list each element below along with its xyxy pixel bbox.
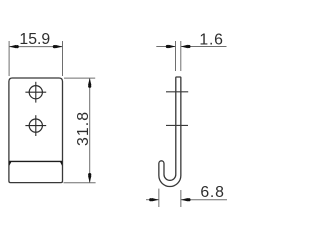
- dim 15.9 left arrow: [9, 45, 19, 48]
- dim 31.8 top arrow: [88, 78, 91, 88]
- hole H1 circle: [29, 86, 42, 99]
- dim 6.8 right extension line: [180, 190, 182, 207]
- hole H2 crosshair horizontal: [25, 125, 46, 127]
- svg-text:15.9: 15.9: [19, 31, 50, 48]
- dim 15.9 dimension line: [9, 46, 62, 48]
- front view plate outline: [9, 78, 63, 183]
- dim 31.8 bottom arrow: [88, 173, 91, 183]
- hole H1 centerline (side view): [166, 91, 188, 93]
- dim 31.8 bottom extension line: [64, 182, 96, 184]
- dim 6.8 dimension line left segment: [146, 199, 159, 201]
- hole H1 crosshair horizontal: [25, 91, 46, 93]
- dim 1.6 dimension line left segment: [156, 46, 175, 48]
- hole H1 crosshair vertical: [35, 82, 37, 103]
- dim 1.6 right arrow (points left at line): [181, 45, 191, 48]
- dim 6.8 left arrow (points right at line): [149, 198, 159, 201]
- dim 15.9 right arrow: [53, 45, 63, 48]
- dim 15.9 left extension line: [8, 41, 10, 76]
- hole H2 centerline (side view): [166, 124, 188, 126]
- side view hook profile: [159, 77, 181, 187]
- bend line: [9, 160, 62, 162]
- dim 31.8 top extension line: [64, 77, 95, 79]
- svg-text:6.8: 6.8: [200, 184, 224, 201]
- dim 31.8 dimension line: [89, 78, 91, 183]
- dim 15.9 right extension line: [62, 41, 64, 76]
- bend line left dart: [9, 161, 11, 166]
- dim 6.8 right arrow (points left at line): [181, 198, 191, 201]
- dim 1.6 left arrow (points right at line): [166, 45, 176, 48]
- dim 1.6 right extension line: [180, 41, 182, 71]
- svg-text:1.6: 1.6: [199, 31, 223, 48]
- dim 6.8 left extension line: [158, 189, 160, 207]
- dim 6.8 dimension line right segment: [181, 199, 227, 201]
- hole H2 crosshair vertical: [35, 115, 37, 136]
- hole H2 circle: [29, 119, 42, 132]
- bend line right dart: [60, 161, 62, 166]
- dim 1.6 dimension line right segment: [181, 46, 227, 48]
- dim 1.6 left extension line: [175, 41, 177, 71]
- svg-text:31.8: 31.8: [75, 111, 92, 146]
